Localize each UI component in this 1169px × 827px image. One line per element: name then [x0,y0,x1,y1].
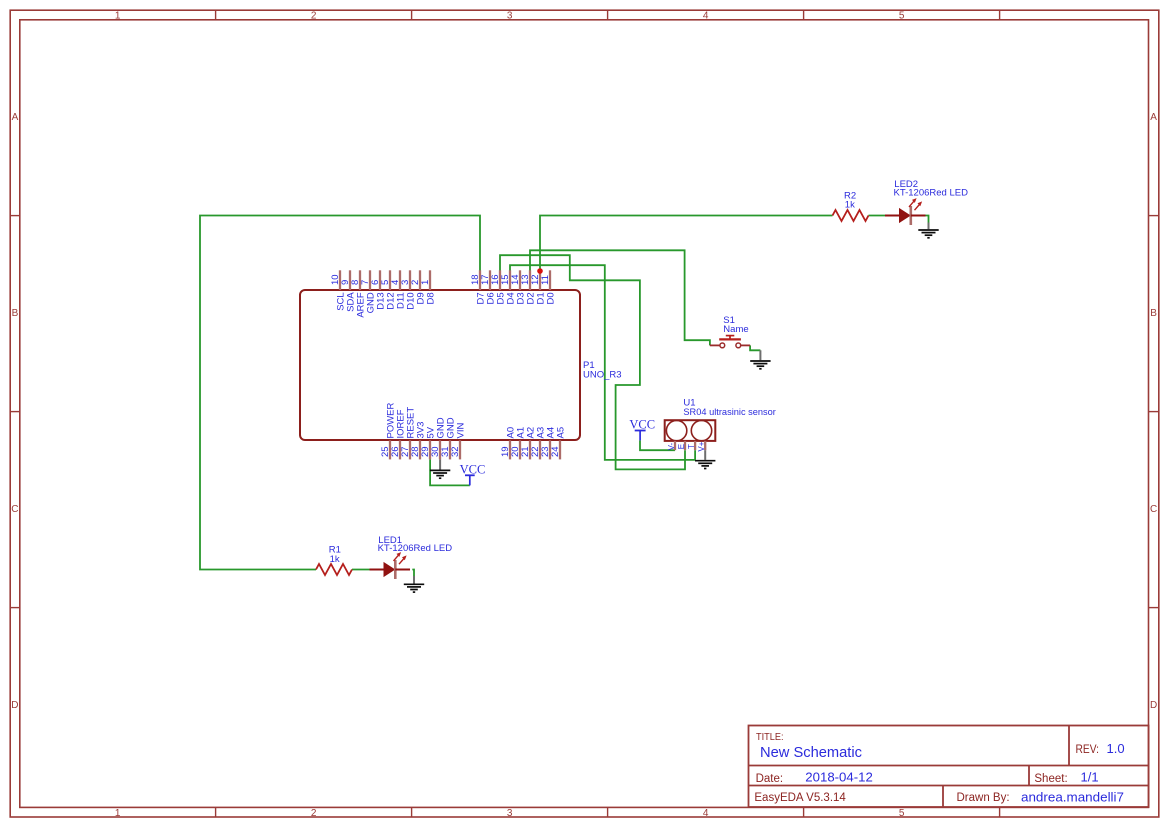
ruler row letters right [1150,112,1157,711]
P1 pin 6 D13 [370,270,386,309]
svg-text:1/1: 1/1 [1081,770,1099,785]
svg-text:T: T [687,444,696,449]
svg-text:VIN: VIN [455,423,466,439]
wire LED1 cathode to ground [412,570,414,577]
svg-text:11: 11 [540,275,551,285]
svg-text:andrea.mandelli7: andrea.mandelli7 [1021,790,1124,805]
P1 pin 2 D9 [410,270,426,304]
svg-text:UNO_R3: UNO_R3 [583,370,622,381]
ruler column numbers bottom [115,808,905,819]
svg-text:1: 1 [420,280,431,285]
P1 pin 28 3V3 [410,422,426,460]
P1 pin 16 D5 [490,270,506,304]
svg-text:C: C [1150,504,1157,515]
P1 pin 8 AREF [350,270,366,317]
U1 pin E [677,441,686,450]
P1 pin 22 A3 [530,427,546,460]
svg-text:KT-1206Red LED: KT-1206Red LED [894,187,969,198]
svg-text:3: 3 [507,10,513,21]
wire LED2 cathode to ground [926,216,929,223]
P1 pin 24 A5 [550,427,566,460]
LED LED2 [885,198,926,225]
resistor R2 [833,210,869,221]
junction dot on pin 12 D1 [537,268,543,274]
svg-text:1.0: 1.0 [1107,741,1125,756]
svg-text:A: A [1150,112,1157,123]
svg-text:Date:: Date: [756,773,784,785]
P1 pin 9 SDA [340,270,356,312]
P1 pin 1 D8 [420,270,436,304]
svg-text:1k: 1k [330,554,340,565]
wire R1 to LED1 [352,569,370,571]
svg-text:2: 2 [311,10,317,21]
wire U1 pin T stub [694,450,696,460]
svg-text:VCC: VCC [629,417,655,431]
wire VCC to U1 pin V [640,440,675,450]
P1 pin 15 D4 [500,270,516,304]
P1 pin 17 D6 [480,270,496,304]
svg-text:1: 1 [115,10,121,21]
wire D2 to S1 [530,250,710,345]
P1 pin 32 VIN [450,423,466,460]
svg-text:Name: Name [723,324,748,335]
svg-text:B: B [12,308,19,319]
wire D1 to R2/LED2 [540,216,833,273]
wire 5V pin to VCC2 [430,459,470,485]
svg-text:1: 1 [115,808,121,819]
svg-text:C: C [11,504,18,515]
svg-text:24: 24 [550,446,561,457]
LED LED1 [370,552,411,579]
svg-text:B: B [1150,308,1157,319]
P1 pin 20 A1 [510,427,526,460]
svg-text:TITLE:: TITLE: [756,732,784,743]
switch S1 [710,336,750,348]
ruler column numbers top [115,10,905,21]
svg-text:V+: V+ [697,441,706,451]
wire D4 to U1 pin T [510,265,695,460]
ground at S1 [750,350,770,369]
P1 pin 14 D3 [510,270,526,304]
svg-text:D0: D0 [545,292,556,304]
P1 pin 10 SCL [330,270,346,310]
ground at GND pin 30 [430,459,450,478]
op-amp? no: connector P1 UNO_R3 body [300,290,580,440]
svg-text:Sheet:: Sheet: [1034,773,1067,785]
P1 pin 29 5V [420,426,436,459]
P1 pin 18 D7 [470,270,486,304]
svg-text:1k: 1k [845,200,855,211]
wire S1 to ground [750,345,760,350]
svg-text:2018-04-12: 2018-04-12 [805,770,873,785]
svg-text:5: 5 [899,808,905,819]
svg-text:REV:: REV: [1076,744,1100,756]
title block frame [749,726,1149,808]
svg-text:KT-1206Red LED: KT-1206Red LED [378,543,453,554]
VCC power flag at U1 [629,417,655,440]
ground at U1 V+ [695,450,715,468]
P1 pin 13 D2 [520,270,536,304]
P1 pin 27 RESET [400,407,416,460]
P1 pin 19 A0 [500,427,516,460]
wire D5 to U1 pin E [500,255,685,469]
wire R2 to LED2 [869,215,886,217]
P1 pin 5 D12 [380,270,396,309]
svg-text:Drawn By:: Drawn By: [957,792,1010,804]
svg-text:5: 5 [899,10,905,21]
svg-text:D: D [11,700,18,711]
ruler row letters left [11,112,18,711]
U1 pin T [687,441,696,450]
P1 pin 23 A4 [540,427,556,460]
sensor U1 SR04 body [665,420,716,441]
svg-text:V-: V- [667,442,676,450]
svg-text:32: 32 [450,446,461,457]
P1 pin 12 D1 [530,270,546,304]
svg-text:A: A [12,112,19,123]
ground at LED1 [404,576,424,592]
P1 pin 25 POWER [380,402,396,459]
ground at LED2 [918,223,938,238]
P1 pin 7 GND [360,270,376,313]
wire D7 to R1/LED1 [200,216,480,570]
svg-text:D8: D8 [425,292,436,304]
svg-text:4: 4 [703,10,709,21]
svg-text:4: 4 [703,808,709,819]
svg-text:A5: A5 [555,427,566,439]
svg-text:D: D [1150,700,1157,711]
P1 pin 11 D0 [540,270,556,304]
svg-text:New Schematic: New Schematic [760,745,862,761]
svg-text:E: E [677,444,686,449]
svg-text:EasyEDA V5.3.14: EasyEDA V5.3.14 [754,792,846,804]
P1 pin 26 IOREF [390,409,406,459]
P1 pin 4 D11 [390,270,406,309]
VCC power flag at 5V pin [460,463,486,486]
P1 pin 30 GND [430,417,446,459]
P1 pin 3 D10 [400,270,416,309]
U1 pin V- [667,441,676,450]
svg-text:2: 2 [311,808,317,819]
resistor R1 [316,564,352,575]
P1 pin 31 GND [440,417,456,459]
U1 pin V+ [697,441,706,452]
svg-text:3: 3 [507,808,513,819]
P1 pin 21 A2 [520,427,536,460]
svg-text:SR04 ultrasinic sensor: SR04 ultrasinic sensor [683,407,776,418]
